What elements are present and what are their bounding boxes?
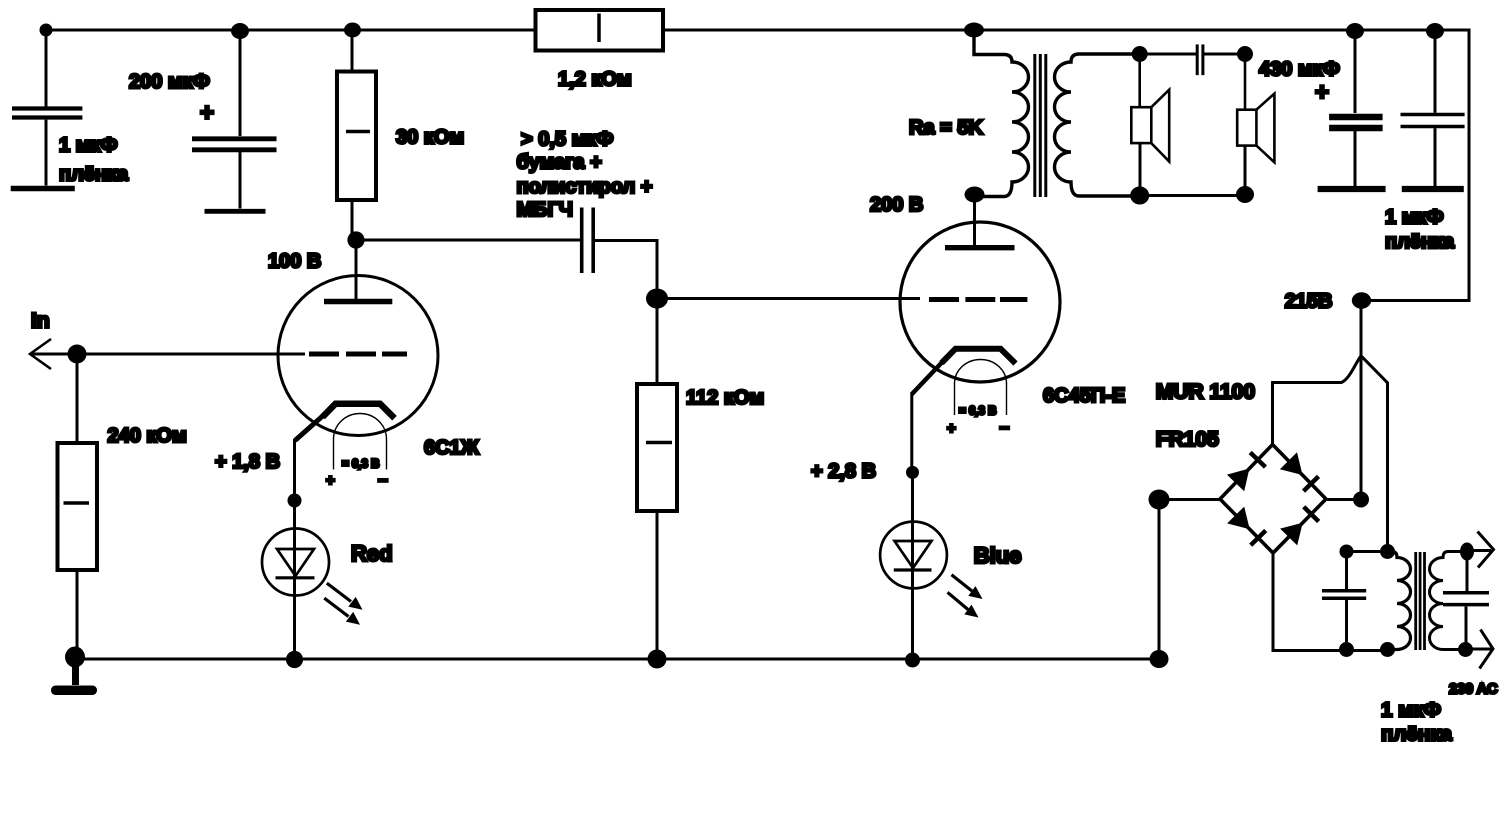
LED D1 Red: [262, 500, 329, 659]
svg-text:Ra = 5K: Ra = 5K: [909, 117, 983, 139]
wire bridge plus to 215V rail: [1326, 498, 1361, 501]
svg-text:430 мкФ: 430 мкФ: [1259, 59, 1340, 81]
svg-text:215В: 215В: [1285, 291, 1333, 313]
ground symbol: [51, 658, 97, 695]
V1 grid dashes: [309, 352, 407, 357]
tube V1 6C1Zh envelope: [278, 276, 438, 436]
svg-text:1 мкФ: 1 мкФ: [1385, 207, 1444, 229]
node R1 top: [344, 23, 361, 38]
wire bridge AC top with jump over B+ rail: [1273, 356, 1388, 552]
capacitor C5 430uF electrolytic: [1318, 31, 1386, 189]
svg-text:−: −: [1000, 419, 1010, 438]
capacitor C7 mains 1uF film: [1322, 552, 1366, 650]
AC input arrow bottom: [1465, 630, 1493, 669]
svg-text:+ 1,8 В: + 1,8 В: [215, 451, 280, 473]
diode D3 (left-top): [1227, 453, 1266, 492]
V1 heater: [334, 414, 387, 470]
transformer T1 secondary: [1055, 54, 1140, 196]
V2 heater: [955, 360, 1007, 416]
tube V2 6C45P-E envelope: [900, 222, 1060, 382]
AC input arrow top: [1467, 532, 1494, 568]
bridge rectifier diamond: [1220, 445, 1326, 554]
LED D1 light arrows: [324, 583, 362, 625]
capacitor C4 crossover: [1197, 44, 1203, 75]
node ground left: [65, 647, 85, 668]
wire coupling cap to grid node of V2: [595, 241, 657, 299]
node bridge plus: [1353, 492, 1369, 508]
wire plate node to coupling cap: [356, 239, 580, 242]
node V1 grid / input: [68, 345, 87, 364]
svg-text:230 AC: 230 AC: [1449, 682, 1498, 698]
input arrow In: [30, 339, 51, 369]
svg-text:200 В: 200 В: [870, 194, 923, 216]
node T2 primary top: [1380, 544, 1395, 559]
node T2 secondary top: [1460, 543, 1474, 561]
wire top bus right segment with corner down to 215V rail: [663, 30, 1469, 301]
svg-text:6С1Ж: 6С1Ж: [424, 437, 480, 459]
node bridge gnd: [1150, 650, 1169, 668]
svg-text:112 кОм: 112 кОм: [686, 387, 764, 409]
capacitor C1 1uF film (top left): [11, 30, 83, 189]
svg-text:FR105: FR105: [1156, 428, 1219, 451]
node LED red gnd: [286, 651, 303, 668]
resistor R3 240 kOhm: [58, 354, 98, 657]
wire B+ rail from 215V node down to bridge +: [1360, 301, 1363, 500]
V2 grid dashes: [929, 297, 1027, 302]
svg-text:Blue: Blue: [974, 543, 1022, 568]
resistor R1 30 kOhm: [337, 30, 376, 240]
capacitor C8 across mains input: [1443, 552, 1489, 650]
svg-text:1,2 кОм: 1,2 кОм: [558, 69, 632, 91]
wire bridge AC bottom to transformer: [1273, 553, 1388, 651]
LED D2 Blue: [880, 472, 947, 660]
wire secondary top to crossover cap: [1140, 53, 1196, 56]
transformer T2 core: [1416, 552, 1425, 650]
capacitor C2 200uF electrolytic: [192, 31, 277, 211]
LED D2 light arrows: [948, 575, 983, 618]
node V1 cathode: [288, 494, 302, 508]
node T2 primary bottom: [1380, 642, 1395, 657]
wire crossover cap to speaker 2 branch: [1204, 53, 1245, 56]
diode D6 (bottom-right): [1280, 507, 1319, 546]
wire mains cap to primary node: [1347, 550, 1388, 553]
svg-text:полистирол +: полистирол +: [517, 176, 653, 198]
node T2 secondary bottom: [1458, 642, 1473, 657]
node T1 primary bottom / V2 anode: [965, 187, 985, 203]
speaker SP1: [1131, 54, 1169, 196]
wire grid node to V2 grid: [657, 297, 920, 300]
svg-text:240 кОм: 240 кОм: [108, 425, 187, 447]
svg-text:−: −: [378, 471, 388, 490]
svg-text:+ 2,8 В: + 2,8 В: [811, 461, 876, 483]
node R4 gnd: [648, 650, 667, 669]
svg-text:6С45П-Е: 6С45П-Е: [1043, 385, 1125, 407]
node speaker1 bottom: [1130, 187, 1149, 205]
node C7 top: [1340, 545, 1354, 559]
svg-text:100 В: 100 В: [268, 251, 321, 273]
node speaker2 top: [1237, 46, 1253, 62]
svg-text:MUR 1100: MUR 1100: [1156, 381, 1255, 404]
node LED blue gnd: [905, 653, 920, 668]
transformer T2 mains, primary: [1388, 552, 1411, 650]
V2 anode: [945, 195, 1015, 248]
svg-text:+: +: [326, 472, 335, 489]
svg-text:In: In: [31, 310, 50, 333]
resistor R2 1.2 kOhm (top): [536, 10, 664, 51]
node C6 top: [1426, 23, 1444, 39]
wire input to V1 grid: [30, 353, 305, 356]
transformer T1 output, primary: [974, 30, 1029, 197]
node C5 top: [1346, 23, 1364, 39]
transformer T2 secondary: [1430, 552, 1468, 650]
svg-text:плёнка: плёнка: [1385, 231, 1455, 253]
node speaker2 bottom: [1236, 186, 1254, 203]
svg-text:30 кОм: 30 кОм: [396, 127, 464, 149]
svg-text:бумага +: бумага +: [517, 152, 602, 174]
svg-text:= 6,3 В: = 6,3 В: [342, 459, 379, 471]
node V2 cathode: [906, 466, 919, 479]
V2 cathode: [912, 349, 1016, 472]
svg-text:плёнка: плёнка: [1381, 723, 1452, 746]
node V1 anode: [347, 231, 364, 248]
node C2 top: [231, 23, 249, 39]
svg-text:+: +: [947, 420, 956, 437]
node C7 bottom: [1339, 642, 1354, 657]
speaker SP2: [1237, 54, 1274, 196]
svg-text:1 мкФ: 1 мкФ: [1381, 699, 1441, 722]
node V2 grid: [646, 289, 668, 309]
node 215V: [1352, 292, 1371, 308]
svg-text:1 мкФ: 1 мкФ: [59, 135, 118, 157]
V1 cathode: [295, 404, 395, 500]
node T1 primary top: [964, 23, 984, 38]
svg-text:= 6,3 В: = 6,3 В: [959, 406, 996, 418]
svg-text:+: +: [1315, 79, 1329, 106]
capacitor C3 coupling >0.5uF: [582, 208, 594, 274]
capacitor C6 1uF film: [1401, 31, 1465, 189]
wire speaker bottom rail: [1140, 194, 1245, 197]
node bridge minus: [1149, 490, 1170, 510]
svg-text:плёнка: плёнка: [59, 164, 129, 186]
node top-left: [40, 24, 53, 37]
diode D5 (left-bottom): [1227, 507, 1266, 546]
wire bridge minus to ground bus: [1159, 498, 1220, 501]
svg-text:200 мкФ: 200 мкФ: [129, 71, 210, 93]
svg-text:МБГЧ: МБГЧ: [517, 199, 573, 221]
transformer T1 core: [1035, 54, 1046, 197]
diode D4 (top-right): [1280, 452, 1319, 491]
svg-text:Red: Red: [351, 541, 393, 566]
resistor R4 112 kOhm: [637, 299, 677, 660]
wire top bus left segment: [46, 29, 536, 32]
V1 anode: [324, 240, 392, 302]
wire ground bus (bottom): [75, 658, 1159, 661]
node speaker1 top: [1132, 46, 1148, 62]
svg-text:> 0,5 мкФ: > 0,5 мкФ: [521, 129, 613, 151]
svg-text:+: +: [200, 100, 214, 127]
